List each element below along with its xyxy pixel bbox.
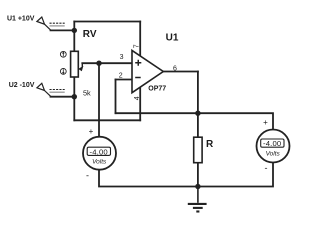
wire: left voltmeter to bottom rail [99, 169, 198, 186]
wire: output vertical to resistor [197, 72, 199, 138]
svg-text:+: + [263, 118, 268, 127]
svg-text:5k: 5k [83, 88, 91, 97]
node: output / feedback junction [195, 111, 200, 116]
svg-text:U1 +10V: U1 +10V [7, 15, 35, 22]
svg-text:2: 2 [119, 73, 123, 80]
voltage source U1 +10V [7, 15, 65, 30]
svg-text:-: - [86, 171, 89, 181]
resistor R [194, 137, 214, 163]
wire: output rail to right voltmeter [198, 113, 273, 130]
wire: right voltmeter to bottom rail [198, 162, 273, 186]
svg-text:4: 4 [134, 96, 141, 100]
wire: U2 source lead [51, 96, 75, 98]
wire: pin 2 feedback left [116, 79, 133, 81]
wire: output from pin 6 [164, 71, 198, 73]
ground [188, 187, 207, 212]
wire: feedback bottom run to output node [116, 112, 198, 114]
wire: U1 source lead [51, 29, 75, 31]
svg-text:3: 3 [120, 54, 124, 61]
node: wiper / voltmeter junction [96, 61, 101, 66]
wire: resistor bottom to ground rail [197, 163, 199, 187]
svg-text:U2 -10V: U2 -10V [9, 82, 35, 89]
svg-text:+: + [89, 127, 94, 136]
wire: wiper to pin 3 [82, 62, 132, 64]
wire: pin 4 supply drop [139, 87, 141, 120]
svg-text:RV: RV [83, 29, 97, 40]
svg-text:U1: U1 [166, 33, 179, 44]
node: +10V junction [72, 28, 77, 33]
svg-text:7: 7 [133, 44, 140, 48]
voltage source U2 -10V [9, 82, 65, 97]
svg-text:6: 6 [173, 65, 177, 72]
wire: negative supply run to pin 4 [74, 119, 140, 121]
op-amp U1 OP77 [119, 33, 179, 101]
potentiometer RV 5k [60, 29, 96, 97]
svg-text:Volts: Volts [92, 158, 107, 165]
node: ground junction [195, 184, 200, 189]
wire: pin 7 supply drop [139, 22, 141, 57]
wire: feedback vertical [115, 80, 117, 114]
svg-text:-4.00: -4.00 [263, 139, 281, 148]
voltmeter VM1 (left, -4.00 Volts) [83, 127, 116, 181]
svg-text:R: R [206, 139, 214, 150]
wire: top rail from left bus to pin 7 [74, 21, 140, 23]
wire: potentiometer bottom lead to lower corner [73, 77, 75, 120]
svg-text:-: - [265, 163, 268, 173]
svg-text:Volts: Volts [266, 151, 281, 158]
wire: wiper node to left voltmeter [98, 63, 100, 137]
voltmeter VM2 (right, -4.00 Volts) [257, 118, 290, 173]
svg-text:-4.00: -4.00 [90, 147, 108, 156]
svg-text:OP77: OP77 [148, 86, 166, 93]
node: -10V junction [72, 94, 77, 99]
wire: left bus upper (corner to potentiometer top) [73, 22, 75, 52]
